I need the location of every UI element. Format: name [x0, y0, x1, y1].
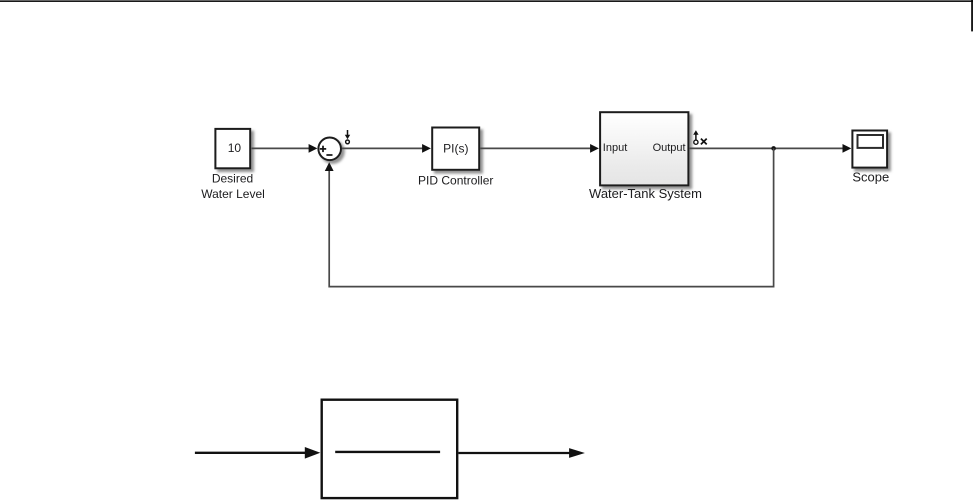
- svg-text:PID Controller: PID Controller: [418, 174, 493, 188]
- block: Desired Water Level constant (value 10): [215, 129, 250, 168]
- block: PID Controller PI(s): [432, 128, 479, 170]
- block: plain rectangle of lower figure: [322, 400, 458, 498]
- line inside lower figure block: [335, 451, 440, 453]
- svg-text:Desired: Desired: [212, 172, 253, 186]
- svg-text:Water Level: Water Level: [201, 187, 265, 201]
- wire: output arrow of lower figure: [458, 448, 585, 458]
- junction: feedback branch point: [771, 146, 776, 151]
- svg-text:Input: Input: [603, 142, 627, 154]
- wire: input arrow of lower figure: [195, 447, 320, 459]
- signal logging badge at Sum output: [345, 130, 350, 144]
- block: Water-Tank System subsystem: [600, 112, 688, 185]
- wire: feedback loop to Sum: [325, 148, 774, 286]
- wire: Desired Water Level to Sum: [252, 144, 318, 153]
- svg-text:10: 10: [228, 141, 242, 155]
- signal logging badge at Water-Tank System output: [693, 130, 707, 144]
- label: Desired Water Level: [201, 172, 265, 201]
- svg-text:Output: Output: [653, 142, 686, 154]
- sum junction: [318, 138, 341, 161]
- wire: PID Controller to Water-Tank System: [480, 144, 599, 153]
- wire: Water-Tank System to Scope: [690, 144, 852, 153]
- block: Scope: [852, 131, 887, 168]
- svg-text:Scope: Scope: [852, 170, 889, 185]
- wire: Sum to PID Controller: [342, 144, 431, 153]
- svg-text:Water-Tank System: Water-Tank System: [589, 186, 702, 201]
- svg-text:PI(s): PI(s): [443, 141, 468, 155]
